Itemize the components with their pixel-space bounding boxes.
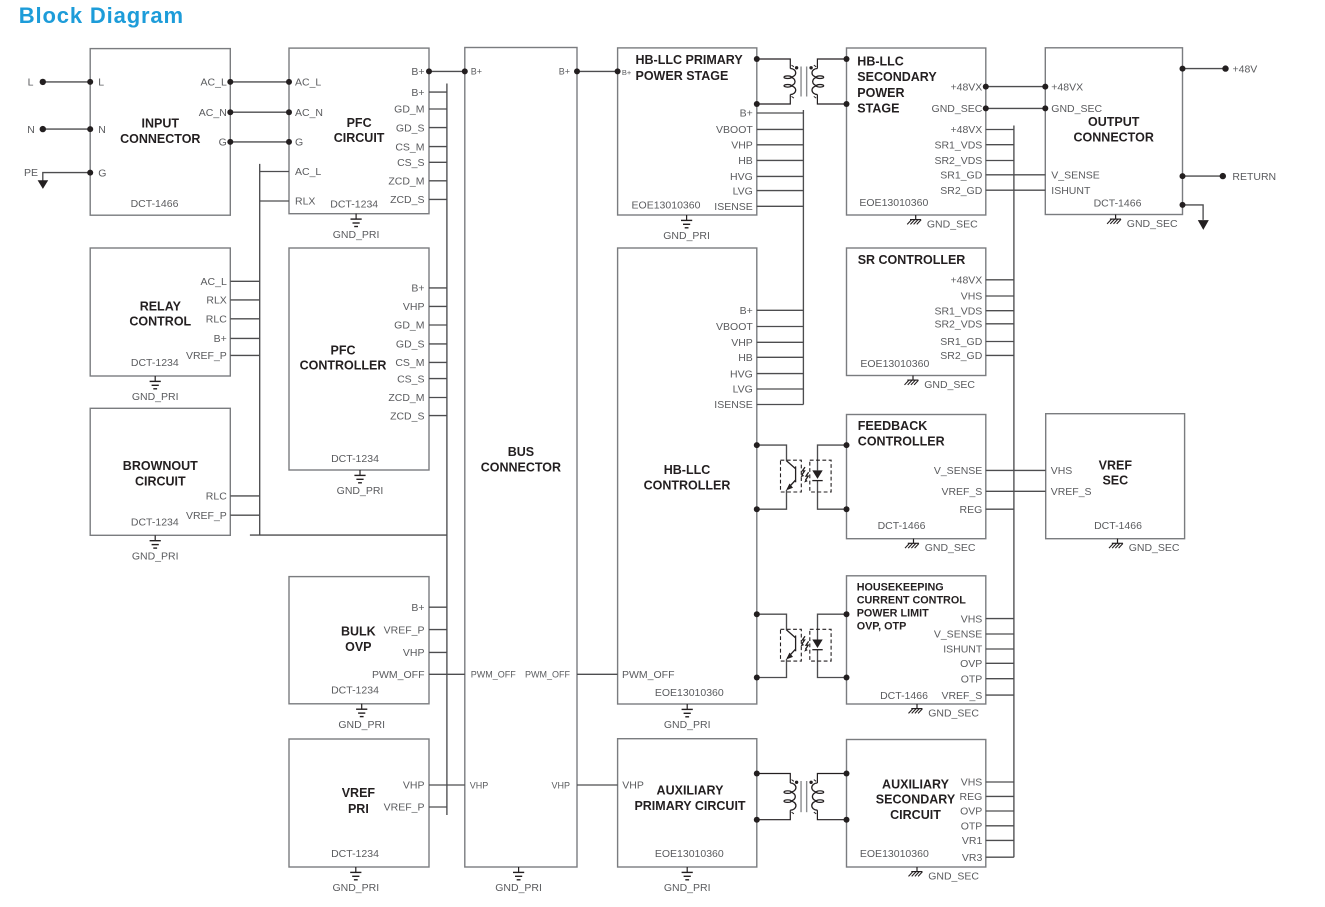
svg-text:PFC: PFC [331, 343, 356, 357]
svg-text:HB-LLC: HB-LLC [857, 54, 904, 68]
svg-text:VREF_S: VREF_S [1051, 486, 1092, 498]
wire: L terminal to INPUT CONNECTOR [40, 79, 94, 85]
wire: RETURN output terminal [1180, 173, 1227, 179]
wire: G INPUT to PFC CIRCUIT [227, 139, 292, 145]
svg-text:B+: B+ [740, 108, 753, 120]
svg-text:ISENSE: ISENSE [714, 201, 753, 213]
svg-text:RLC: RLC [206, 314, 227, 326]
svg-text:AC_L: AC_L [295, 77, 321, 89]
svg-text:INPUT: INPUT [142, 117, 180, 131]
svg-text:+48VX: +48VX [1051, 81, 1083, 93]
svg-text:AC_L: AC_L [201, 276, 227, 288]
svg-text:PWM_OFF: PWM_OFF [471, 670, 516, 680]
svg-text:L: L [98, 77, 104, 89]
svg-text:ZCD_M: ZCD_M [388, 176, 424, 188]
ground: GND_SEC under OUTPUT CONNECTOR [1107, 215, 1178, 230]
svg-text:B+: B+ [214, 333, 227, 345]
svg-text:GND_PRI: GND_PRI [132, 391, 179, 403]
svg-text:DCT-1234: DCT-1234 [331, 685, 379, 697]
svg-text:POWER STAGE: POWER STAGE [636, 69, 729, 83]
svg-text:AC_L: AC_L [201, 77, 227, 89]
ground: GND_PRI under RELAY CONTROL [132, 376, 179, 403]
svg-text:SR2_GD: SR2_GD [940, 350, 982, 362]
wire: BROWNOUT CIRCUIT pin stubs to relay net [230, 496, 259, 515]
block: AUXILIARY SECONDARY CIRCUIT (EOE13010360) [847, 740, 986, 868]
svg-text:AUXILIARY: AUXILIARY [657, 783, 725, 797]
wire: PE earth from INPUT CONNECTOR pin G [43, 170, 93, 181]
svg-text:POWER LIMIT: POWER LIMIT [857, 608, 929, 620]
svg-text:VHP: VHP [731, 337, 753, 349]
svg-text:VBOOT: VBOOT [716, 321, 753, 333]
svg-text:LVG: LVG [733, 384, 753, 396]
svg-text:SR1_VDS: SR1_VDS [934, 139, 982, 151]
svg-text:+48V: +48V [1233, 63, 1258, 75]
svg-text:CIRCUIT: CIRCUIT [135, 475, 186, 489]
svg-text:CONTROLLER: CONTROLLER [644, 478, 731, 492]
svg-text:ISHUNT: ISHUNT [943, 644, 983, 656]
svg-text:B+: B+ [740, 305, 753, 317]
svg-text:RLX: RLX [206, 295, 226, 307]
svg-text:OVP, OTP: OVP, OTP [857, 621, 907, 633]
ground: GND_PRI under BULK OVP [338, 704, 385, 731]
svg-text:AUXILIARY: AUXILIARY [882, 778, 950, 792]
svg-text:OUTPUT: OUTPUT [1088, 115, 1140, 129]
ground: GND_PRI under PFC CIRCUIT [333, 214, 380, 241]
svg-text:CS_M: CS_M [395, 141, 424, 153]
svg-text:GND_PRI: GND_PRI [664, 882, 711, 894]
svg-text:DCT-1234: DCT-1234 [331, 848, 379, 860]
svg-text:GND_PRI: GND_PRI [664, 719, 711, 731]
wire: VREF_P VREF PRI stub to net V2 [429, 806, 447, 808]
svg-text:EOE13010360: EOE13010360 [859, 197, 928, 209]
svg-text:STAGE: STAGE [857, 102, 899, 116]
ground: GND_PRI under PFC CONTROLLER [337, 470, 384, 497]
svg-text:N: N [27, 124, 35, 136]
svg-text:VREF_P: VREF_P [384, 624, 425, 636]
svg-text:CIRCUIT: CIRCUIT [334, 131, 385, 145]
svg-text:EOE13010360: EOE13010360 [860, 358, 929, 370]
block: BULK OVP (DCT-1234) [289, 577, 429, 704]
ground: GND_SEC under SR CONTROLLER [905, 376, 976, 391]
svg-text:GND_PRI: GND_PRI [663, 230, 710, 242]
wire: net V2 vertical (PFC signals) [446, 84, 448, 816]
svg-text:VHS: VHS [961, 613, 983, 625]
svg-text:OVP: OVP [345, 640, 371, 654]
transformer T2 (auxiliary) [754, 771, 850, 823]
block: VREF PRI (DCT-1234) [289, 739, 429, 867]
block: HB-LLC CONTROLLER (EOE13010360) [618, 248, 757, 704]
svg-text:VHP: VHP [731, 140, 753, 152]
svg-text:DCT-1466: DCT-1466 [1094, 198, 1142, 210]
svg-text:+48VX: +48VX [950, 124, 982, 136]
svg-text:G: G [219, 137, 227, 149]
svg-text:VREF_S: VREF_S [941, 690, 982, 702]
ground: GND_SEC under VREF SEC [1109, 539, 1180, 554]
wire: AUXILIARY SECONDARY right pin stubs to net V4 [986, 782, 1014, 857]
block: PFC CONTROLLER (DCT-1234) [289, 248, 429, 470]
svg-text:VREF_P: VREF_P [384, 802, 425, 814]
wire: PWM_OFF BUS CONNECTOR to HB-LLC CONTROLLER [577, 673, 618, 675]
svg-text:VREF: VREF [342, 786, 376, 800]
wire: HB-LLC SECONDARY right pin stubs to net V4 [986, 130, 1014, 161]
svg-text:DCT-1234: DCT-1234 [330, 198, 378, 210]
svg-text:GND_PRI: GND_PRI [333, 229, 380, 241]
svg-text:PWM_OFF: PWM_OFF [622, 669, 675, 681]
transformer T1 (HB-LLC main) [754, 56, 850, 107]
wire: HB-LLC PRIMARY right pin stubs to net V3 [757, 113, 804, 206]
svg-text:EOE13010360: EOE13010360 [655, 848, 724, 860]
svg-text:HVG: HVG [730, 368, 753, 380]
block: HB-LLC PRIMARY POWER STAGE (EOE13010360) [618, 48, 757, 215]
svg-text:VHP: VHP [622, 780, 644, 792]
svg-text:AC_N: AC_N [199, 107, 227, 119]
svg-text:OVP: OVP [960, 658, 982, 670]
svg-text:VHP: VHP [403, 780, 425, 792]
svg-text:PRI: PRI [348, 802, 369, 816]
ground: GND_SEC under HOUSEKEEPING [909, 704, 980, 719]
svg-text:OVP: OVP [960, 806, 982, 818]
ground: GND_PRI under BROWNOUT CIRCUIT [132, 535, 179, 562]
svg-text:OTP: OTP [961, 821, 983, 833]
svg-text:HVG: HVG [730, 171, 753, 183]
svg-text:EOE13010360: EOE13010360 [632, 199, 701, 211]
svg-text:ISENSE: ISENSE [714, 399, 753, 411]
svg-text:VREF_P: VREF_P [186, 350, 227, 362]
svg-text:GND_SEC: GND_SEC [927, 218, 978, 230]
svg-text:CURRENT CONTROL: CURRENT CONTROL [857, 595, 967, 607]
svg-text:VHS: VHS [1051, 465, 1073, 477]
block: HB-LLC SECONDARY POWER STAGE (EOE13010360) [847, 48, 986, 215]
svg-text:GND_SEC: GND_SEC [1129, 542, 1180, 554]
svg-text:CS_S: CS_S [397, 157, 424, 169]
svg-text:SR1_GD: SR1_GD [940, 170, 982, 182]
ground: output earth arrow [1198, 220, 1209, 230]
wire: AC_L PFC CIRCUIT to net RLX bus [260, 171, 289, 173]
wire: BULK OVP right pin stubs to net V2 [429, 607, 447, 652]
svg-text:HB: HB [738, 352, 753, 364]
optocoupler U1 (feedback) [754, 442, 850, 512]
svg-text:CONNECTOR: CONNECTOR [120, 132, 200, 146]
svg-text:PFC: PFC [347, 116, 372, 130]
ground: GND_PRI under BUS CONNECTOR [495, 867, 542, 894]
svg-text:B+: B+ [471, 67, 482, 77]
svg-text:POWER: POWER [857, 86, 904, 100]
ground: GND_PRI under HB-LLC CONTROLLER [664, 704, 711, 731]
svg-text:GND_PRI: GND_PRI [132, 551, 179, 563]
wire: net relay vertical bus [259, 164, 261, 535]
wire: PFC CONTROLLER right pin stubs to net V2 [429, 288, 447, 416]
block: INPUT CONNECTOR (DCT-1466) [90, 49, 230, 216]
wire: net V4 vertical (secondary signals) [1013, 126, 1015, 858]
svg-text:SR CONTROLLER: SR CONTROLLER [858, 253, 966, 267]
svg-text:GD_S: GD_S [396, 122, 425, 134]
svg-text:PE: PE [24, 167, 38, 179]
svg-text:HB-LLC PRIMARY: HB-LLC PRIMARY [636, 53, 744, 67]
block: RELAY CONTROL (DCT-1234) [90, 248, 230, 376]
svg-text:PWM_OFF: PWM_OFF [372, 669, 425, 681]
wire: RLX PFC CIRCUIT to net RLX bus [260, 200, 289, 202]
svg-text:GND_SEC: GND_SEC [1127, 218, 1178, 230]
block: BUS CONNECTOR [465, 48, 577, 868]
svg-text:BULK: BULK [341, 625, 376, 639]
wire: SR1_GD / V_SENSE wire SECONDARY to OUTPUT [986, 174, 1046, 176]
wire: VREF_S FEEDBACK to VREF SEC [986, 490, 1046, 492]
svg-text:VHS: VHS [961, 291, 983, 303]
svg-text:AC_L: AC_L [295, 166, 321, 178]
svg-text:GND_SEC: GND_SEC [928, 707, 979, 719]
block: BROWNOUT CIRCUIT (DCT-1234) [90, 408, 230, 535]
svg-text:B+: B+ [411, 283, 424, 295]
svg-text:CIRCUIT: CIRCUIT [890, 808, 941, 822]
block: PFC CIRCUIT (DCT-1234) [289, 48, 429, 214]
svg-text:VR1: VR1 [962, 835, 983, 847]
wire: +48VX HB-LLC SECONDARY to OUTPUT CONNECTOR [983, 84, 1049, 90]
svg-text:N: N [98, 124, 106, 136]
svg-text:SR2_VDS: SR2_VDS [934, 155, 982, 167]
svg-text:DCT-1234: DCT-1234 [131, 516, 179, 528]
svg-text:VR3: VR3 [962, 852, 983, 864]
svg-text:GND_SEC: GND_SEC [924, 379, 975, 391]
wire: RELAY CONTROL pin stubs to relay net [230, 281, 259, 355]
svg-text:B+: B+ [411, 602, 424, 614]
svg-text:Block Diagram: Block Diagram [19, 3, 184, 28]
svg-text:G: G [98, 167, 106, 179]
svg-text:GND_PRI: GND_PRI [338, 719, 385, 731]
svg-text:ZCD_M: ZCD_M [388, 392, 424, 404]
svg-text:PRIMARY CIRCUIT: PRIMARY CIRCUIT [634, 799, 745, 813]
wire: PFC CIRCUIT right pin stubs to net V2 [429, 92, 447, 199]
svg-text:V_SENSE: V_SENSE [934, 465, 982, 477]
svg-text:SEC: SEC [1102, 474, 1128, 488]
wire: SR2_GD / ISHUNT wire SECONDARY to OUTPUT [986, 189, 1046, 191]
svg-text:DCT-1466: DCT-1466 [878, 520, 926, 532]
svg-text:GND_SEC: GND_SEC [925, 542, 976, 554]
svg-text:V_SENSE: V_SENSE [934, 629, 982, 641]
svg-text:AC_N: AC_N [295, 107, 323, 119]
svg-text:DCT-1466: DCT-1466 [1094, 520, 1142, 532]
wire: V_SENSE FEEDBACK to VREF SEC VHS [986, 469, 1046, 471]
svg-text:EOE13010360: EOE13010360 [655, 687, 724, 699]
svg-text:GD_S: GD_S [396, 339, 425, 351]
svg-text:CONTROLLER: CONTROLLER [858, 434, 945, 448]
svg-text:SR1_VDS: SR1_VDS [934, 305, 982, 317]
svg-text:LVG: LVG [733, 185, 753, 197]
svg-text:+48VX: +48VX [950, 81, 982, 93]
svg-text:VBOOT: VBOOT [716, 124, 753, 136]
svg-text:DCT-1234: DCT-1234 [331, 453, 379, 465]
svg-text:GD_M: GD_M [394, 104, 424, 116]
svg-text:L: L [28, 77, 34, 89]
svg-text:PWM_OFF: PWM_OFF [525, 670, 570, 680]
svg-text:B+: B+ [411, 87, 424, 99]
svg-text:VREF: VREF [1099, 458, 1133, 472]
ground: GND_SEC under AUXILIARY SECONDARY CIRCUIT [909, 867, 980, 882]
svg-text:ZCD_S: ZCD_S [390, 194, 424, 206]
wire: VHP VREF PRI to BUS CONNECTOR [429, 784, 465, 786]
wire: PWM_OFF BULK OVP to BUS CONNECTOR [429, 673, 465, 675]
svg-text:REG: REG [960, 791, 983, 803]
svg-text:SR2_GD: SR2_GD [940, 185, 982, 197]
block: AUXILIARY PRIMARY CIRCUIT (EOE13010360) [618, 739, 757, 867]
wire: B+ BUS CONNECTOR to HB-LLC PRIMARY [574, 68, 621, 74]
svg-text:CS_M: CS_M [395, 357, 424, 369]
block: HOUSEKEEPING CURRENT CONTROL POWER LIMIT OVP, OTP (DCT-1466) [847, 576, 986, 704]
svg-text:RETURN: RETURN [1232, 171, 1276, 183]
wire: N terminal to INPUT CONNECTOR [40, 126, 94, 132]
svg-text:VHS: VHS [961, 777, 983, 789]
svg-text:HB: HB [738, 155, 753, 167]
svg-text:GND_SEC: GND_SEC [928, 870, 979, 882]
svg-text:GND_PRI: GND_PRI [495, 882, 542, 894]
svg-text:+48VX: +48VX [950, 275, 982, 287]
wire: REG FEEDBACK stub to net V4 [986, 508, 1014, 510]
wire: HOUSEKEEPING right pin stubs to net V4 [986, 619, 1014, 696]
svg-text:VREF_P: VREF_P [186, 510, 227, 522]
wire: AC_L INPUT to PFC CIRCUIT [227, 79, 292, 85]
svg-text:HOUSEKEEPING: HOUSEKEEPING [857, 582, 944, 594]
ground: GND_SEC under HB-LLC SECONDARY POWER STAGE [907, 215, 978, 230]
svg-text:CONTROLLER: CONTROLLER [300, 359, 387, 373]
wire: +48V output terminal [1180, 65, 1229, 71]
svg-text:G: G [295, 137, 303, 149]
svg-text:OTP: OTP [961, 673, 983, 685]
ground: PE earth arrow [38, 180, 49, 189]
svg-text:VHP: VHP [470, 780, 489, 790]
block: SR CONTROLLER (EOE13010360) [847, 248, 986, 376]
svg-text:GND_SEC: GND_SEC [1051, 103, 1102, 115]
svg-text:DCT-1466: DCT-1466 [880, 690, 928, 702]
wire: OUTPUT CONNECTOR bottom pin to earth [1180, 202, 1204, 220]
svg-text:VHP: VHP [403, 301, 425, 313]
svg-text:GND_PRI: GND_PRI [337, 485, 384, 497]
block: FEEDBACK CONTROLLER (DCT-1466) [847, 415, 986, 539]
wire: net V3 vertical (HB-LLC signals) [802, 110, 804, 405]
block: VREF SEC (DCT-1466) [1046, 414, 1185, 539]
svg-text:CONTROL: CONTROL [129, 315, 191, 329]
svg-text:BUS: BUS [508, 445, 534, 459]
svg-text:SECONDARY: SECONDARY [857, 70, 937, 84]
wire: B+ PFC CIRCUIT to BUS CONNECTOR [426, 68, 468, 74]
svg-text:B+: B+ [411, 66, 424, 78]
svg-text:GND_SEC: GND_SEC [932, 103, 983, 115]
svg-text:CS_S: CS_S [397, 373, 424, 385]
svg-text:SECONDARY: SECONDARY [876, 793, 956, 807]
wire: AC_N INPUT to PFC CIRCUIT [227, 109, 292, 115]
ground: GND_SEC under FEEDBACK CONTROLLER [905, 539, 976, 554]
svg-text:HB-LLC: HB-LLC [664, 463, 711, 477]
svg-text:VHP: VHP [551, 780, 570, 790]
wire: VHP BUS CONNECTOR to AUXILIARY PRIMARY [577, 784, 618, 786]
svg-text:ZCD_S: ZCD_S [390, 410, 424, 422]
svg-text:RLX: RLX [295, 196, 315, 208]
wire: GND_SEC HB-LLC SECONDARY to OUTPUT CONNECTOR [983, 105, 1049, 111]
svg-text:CONNECTOR: CONNECTOR [481, 460, 561, 474]
svg-text:DCT-1466: DCT-1466 [131, 198, 179, 210]
ground: GND_PRI under AUXILIARY PRIMARY CIRCUIT [664, 867, 711, 894]
svg-text:ISHUNT: ISHUNT [1051, 185, 1091, 197]
wire: SR CONTROLLER right pin stubs to net V4 [986, 280, 1014, 356]
svg-text:DCT-1234: DCT-1234 [131, 357, 179, 369]
svg-text:REG: REG [960, 504, 983, 516]
svg-text:VHP: VHP [403, 647, 425, 659]
ground: GND_PRI under VREF PRI [332, 867, 379, 894]
ground: GND_PRI under HB-LLC PRIMARY POWER STAGE [663, 215, 710, 242]
svg-text:EOE13010360: EOE13010360 [860, 848, 929, 860]
svg-text:BROWNOUT: BROWNOUT [123, 459, 198, 473]
wire: HB-LLC CONTROLLER right pin stubs to net V3 [757, 310, 804, 404]
svg-text:SR2_VDS: SR2_VDS [934, 319, 982, 331]
svg-text:B+: B+ [622, 68, 632, 77]
block: OUTPUT CONNECTOR (DCT-1466) [1045, 48, 1182, 215]
svg-text:VREF_S: VREF_S [941, 486, 982, 498]
svg-text:V_SENSE: V_SENSE [1051, 170, 1099, 182]
svg-text:SR1_GD: SR1_GD [940, 336, 982, 348]
wire: net relay bottom to net V2 [250, 534, 447, 536]
svg-text:FEEDBACK: FEEDBACK [858, 419, 927, 433]
svg-text:CONNECTOR: CONNECTOR [1074, 131, 1154, 145]
svg-text:RELAY: RELAY [140, 299, 182, 313]
svg-text:B+: B+ [559, 67, 570, 77]
svg-text:GND_PRI: GND_PRI [332, 882, 379, 894]
svg-text:RLC: RLC [206, 491, 227, 503]
svg-text:GD_M: GD_M [394, 320, 424, 332]
optocoupler U2 (housekeeping) [754, 611, 850, 680]
